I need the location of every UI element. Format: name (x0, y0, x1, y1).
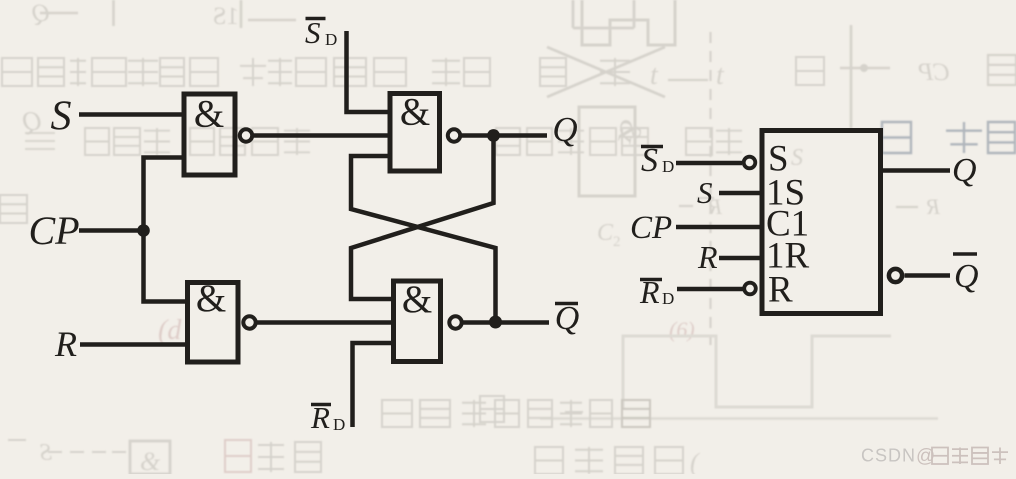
svg-text:2: 2 (613, 234, 621, 250)
wire RD-bar lead (677, 287, 743, 292)
svg-text:Q: Q (954, 258, 979, 295)
wire CP lead (676, 225, 762, 230)
svg-text:R: R (697, 239, 718, 275)
node Q-bar junction (489, 316, 502, 329)
svg-text:&: & (400, 91, 430, 134)
wire Q-bar feedback to U3 pin 3 (351, 156, 496, 320)
svg-text:R: R (926, 194, 941, 219)
svg-text:t: t (716, 60, 725, 91)
label Q-bar output right (953, 254, 979, 295)
svg-text:S: S (305, 15, 321, 50)
label SD-bar block input (641, 142, 674, 179)
wire U1 out to U3 pin 2 (254, 133, 389, 138)
nand gate U2 (188, 283, 239, 363)
svg-text:(: ( (690, 448, 700, 474)
label RD-bar direct reset (310, 400, 345, 435)
svg-text:CP: CP (918, 59, 950, 86)
svg-text:D: D (662, 289, 674, 308)
wire Q feedback to U4 pin 1 (351, 138, 494, 299)
U5 Q-bar output bubble (889, 269, 902, 282)
svg-text:(d: (d (158, 315, 182, 346)
svg-text:(6): (6) (669, 317, 695, 342)
nand gate U4 (394, 281, 441, 362)
svg-text:C: C (597, 220, 614, 246)
wire U2 out to U4 pin 2 (257, 320, 393, 325)
svg-text:Q: Q (23, 106, 43, 136)
svg-text:&: & (194, 93, 224, 136)
svg-text:CP: CP (28, 208, 79, 253)
svg-text:R: R (54, 324, 77, 364)
wire U4 out to Q-bar (463, 320, 550, 325)
svg-text:S: S (51, 94, 72, 140)
svg-text:Q: Q (952, 152, 977, 189)
svg-text:Q: Q (552, 110, 577, 149)
svg-text:&: & (402, 278, 432, 321)
label Q-bar output left (555, 300, 580, 337)
wire S to U1 pin 1 (79, 112, 184, 117)
svg-text:1S: 1S (213, 3, 239, 30)
svg-text:S: S (791, 145, 803, 171)
wire R to U2 pin 2 (80, 342, 189, 347)
nand gate U1 (184, 94, 235, 175)
U3 output bubble (448, 129, 460, 141)
node Q junction (487, 129, 500, 142)
wire R lead (719, 256, 762, 261)
U5 S input bubble (744, 157, 756, 169)
svg-text:&: & (196, 277, 226, 320)
svg-text:D: D (325, 30, 337, 49)
svg-text:D: D (333, 415, 345, 434)
label SD-bar direct set (305, 15, 337, 50)
svg-text:&: & (140, 447, 161, 474)
wire U5 Q output (883, 168, 950, 173)
wire U5 Q-bar output (905, 273, 951, 278)
svg-text:CSDN: CSDN (861, 446, 916, 466)
svg-text:S: S (697, 175, 713, 210)
U1 output bubble (240, 129, 252, 141)
U2 output bubble (243, 316, 255, 328)
svg-text:t: t (650, 60, 659, 91)
svg-text:R: R (768, 270, 793, 311)
U4 output bubble (449, 316, 461, 328)
svg-text:Q: Q (555, 300, 580, 337)
svg-text:D: D (662, 157, 674, 176)
wire S lead (719, 191, 762, 196)
U5 R input bubble (744, 283, 756, 295)
nand gate U3 (390, 94, 440, 172)
node CP junction (137, 224, 150, 237)
wire SD-bar to U3 pin 1 (347, 31, 392, 112)
flip-flop block U5 (762, 131, 881, 314)
wire CP branch to U1 pin2 and U2 pin1 (144, 158, 190, 302)
wire U3 out to Q (461, 133, 547, 138)
wire CP lead (79, 228, 144, 233)
svg-text:CP: CP (630, 210, 672, 246)
wire RD-bar to U4 pin 3 (353, 343, 396, 427)
label RD-bar block input (639, 274, 674, 310)
wire SD-bar lead (676, 161, 742, 166)
